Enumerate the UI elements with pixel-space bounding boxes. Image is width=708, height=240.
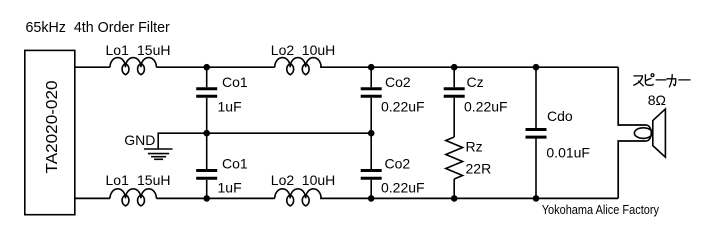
katakana KA [667,75,676,87]
katakana long bar [656,79,666,81]
wire bottom rail: Lo2 to speaker rise [320,197,618,199]
svg-text:10uH: 10uH [302,42,335,58]
svg-text:Co2: Co2 [385,155,411,171]
node Co1 mid (GND) [203,130,210,137]
node Co2 bottom [368,195,375,202]
svg-text:GND: GND [124,132,155,148]
wire top rail: Lo1 to Lo2 [156,66,274,68]
katakana PI [645,75,653,85]
svg-text:Co1: Co1 [222,155,248,171]
svg-text:10uH: 10uH [302,172,335,188]
wire top rail: box to Lo1 [75,66,110,68]
node Rz bottom [451,195,458,202]
svg-text:Co1: Co1 [222,74,248,90]
node Cz top [451,64,458,71]
node Co2 mid (GND) [368,130,375,137]
node Cdo top [533,64,540,71]
svg-text:65kHz 4th Order Filter: 65kHz 4th Order Filter [26,20,170,36]
node Co2 top [368,64,375,71]
inductor Lo1 (top) [110,58,156,75]
IC box U1 TA2020-020 [25,50,75,214]
wire bottom rail: Lo1 to Lo2 [156,197,274,199]
svg-text:TA2020-020: TA2020-020 [44,80,61,173]
inductor Lo2 (bottom) [275,189,321,206]
capacitor Cdo [526,67,547,198]
katakana SU [634,76,644,86]
svg-text:15uH: 15uH [137,172,170,188]
svg-text:0.22uF: 0.22uF [381,179,425,195]
svg-text:0.22uF: 0.22uF [381,99,425,115]
wire right drop to speaker + terminal [618,67,646,125]
capacitor Cz [444,67,465,137]
svg-text:1uF: 1uF [218,179,242,195]
svg-text:Cz: Cz [467,74,484,90]
svg-text:Yokohama Alice Factory: Yokohama Alice Factory [542,202,660,217]
capacitor Co2 (bottom) [361,133,382,198]
svg-text:1uF: 1uF [218,99,242,115]
svg-text:Cdo: Cdo [547,108,573,124]
wire top rail: Lo2 to right corner [320,66,618,68]
inductor Lo2 (top) [275,58,321,75]
label speaker (katakana) [634,74,690,87]
svg-text:Rz: Rz [466,139,483,155]
node Cdo bottom [533,195,540,202]
node Co1 bottom [203,195,210,202]
inductor Lo1 (bottom) [110,189,156,206]
svg-text:15uH: 15uH [137,42,170,58]
svg-text:0.22uF: 0.22uF [464,99,508,115]
svg-text:8Ω: 8Ω [648,92,666,108]
wire bottom rail: box to Lo1 [75,197,110,199]
capacitor Co2 (top) [361,67,382,133]
wire right rise to speaker - terminal [618,141,646,198]
svg-text:Lo2: Lo2 [271,42,295,58]
katakana long bar 2 [679,79,690,81]
svg-text:Lo2: Lo2 [271,172,295,188]
capacitor Co1 (top) [196,67,217,133]
capacitor Co1 (bottom) [196,133,217,198]
junction node dots [203,64,539,202]
svg-text:Lo1: Lo1 [106,172,130,188]
speaker LS1 [634,109,665,157]
svg-text:Co2: Co2 [385,74,411,90]
svg-text:Lo1: Lo1 [106,42,130,58]
svg-text:22R: 22R [466,161,492,177]
svg-text:0.01uF: 0.01uF [546,145,590,161]
node Co1 top [203,64,210,71]
GND rail wire [158,133,371,148]
resistor Rz [446,137,463,198]
ground symbol [144,149,173,159]
